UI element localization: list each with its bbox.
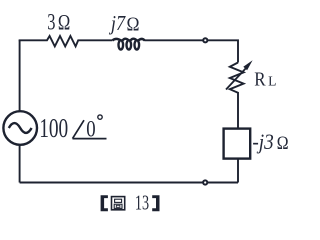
svg-text:100: 100 <box>39 112 68 143</box>
svg-text:R: R <box>254 69 266 91</box>
svg-text:j7: j7 <box>108 11 126 35</box>
svg-text:L: L <box>268 74 276 89</box>
svg-text:-j3: -j3 <box>252 129 273 154</box>
svg-text:Ω: Ω <box>277 133 289 154</box>
svg-text:Ω: Ω <box>58 10 70 35</box>
svg-text:0: 0 <box>86 116 95 141</box>
svg-text:3: 3 <box>47 10 55 36</box>
svg-text:Ω: Ω <box>127 13 140 35</box>
svg-text:13: 13 <box>135 191 149 215</box>
